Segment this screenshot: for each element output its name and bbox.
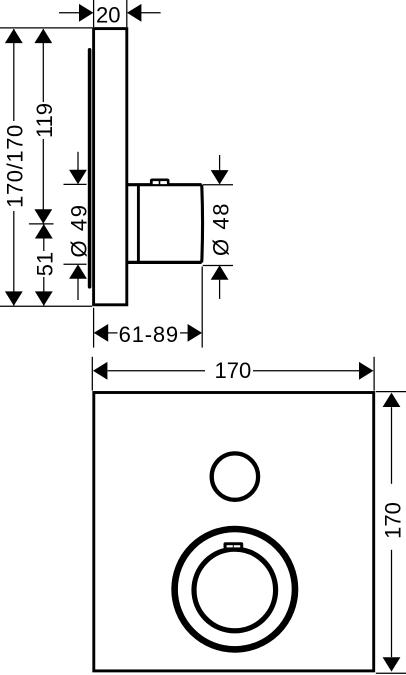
dim 170 height: line, arrows, label <box>391 407 393 484</box>
svg-text:51: 51 <box>33 252 58 276</box>
dim 20: dimension line and arrows <box>59 12 93 14</box>
dim diameter 49: extension lines <box>64 183 87 185</box>
svg-text:170: 170 <box>381 502 406 539</box>
knob top edge (side) <box>127 183 202 186</box>
svg-text:170/170: 170/170 <box>2 124 27 208</box>
knob face edge (side) <box>200 186 204 261</box>
svg-text:Ø 49: Ø 49 <box>67 203 92 257</box>
dim 119: line, arrows, label <box>42 29 44 102</box>
knob center tick <box>29 223 54 225</box>
dim 20: extension lines <box>93 0 95 27</box>
svg-text:Ø 48: Ø 48 <box>208 202 233 256</box>
knob bottom edge (side) <box>127 261 202 264</box>
flange behind plate <box>88 50 92 287</box>
dim 170 width: line, arrows, label <box>108 370 205 372</box>
dim 170 width: extension lines <box>91 357 93 391</box>
dim 61-89: line, arrows, label <box>108 332 118 334</box>
svg-text:20: 20 <box>96 2 120 27</box>
select button front view <box>212 453 258 499</box>
knob marker tab front view <box>224 542 244 548</box>
svg-text:119: 119 <box>32 103 57 138</box>
knob inner ring front view <box>194 549 276 631</box>
knob outer ring front view <box>175 529 295 649</box>
face plate front view <box>94 393 374 671</box>
dim 61-89: extension lines <box>93 308 95 348</box>
top extension line <box>0 27 92 29</box>
wall plate side view <box>94 29 127 305</box>
knob joint line (side) <box>137 185 140 263</box>
dim 170 height: extension lines <box>376 391 406 393</box>
svg-text:170: 170 <box>215 358 252 383</box>
dim diameter 49: line, arrows, label <box>77 152 79 171</box>
bottom extension line <box>0 305 92 307</box>
dim diameter 48: line, arrows, label <box>219 155 221 170</box>
dim 170/170: line, arrows, label <box>13 29 15 121</box>
svg-text:61-89: 61-89 <box>119 322 179 347</box>
dim diameter 48: extension lines <box>203 184 233 186</box>
dim 51: line, arrows, label <box>43 224 45 251</box>
knob marker tab (side) <box>150 179 170 186</box>
